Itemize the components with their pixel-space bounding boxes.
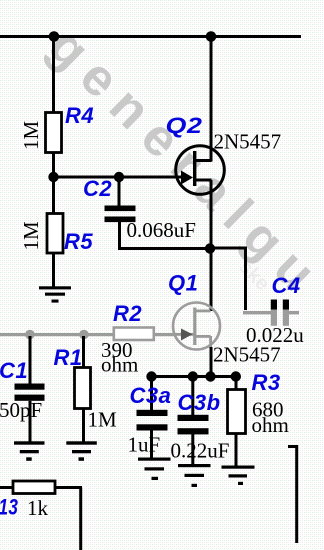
wire C2 bottom down [118,222,121,250]
wire branch to C4 [210,247,247,311]
node R3 tap [231,371,241,381]
node C3a tap [146,371,156,381]
wire top rail to R4 [52,37,55,112]
watermark generalgu diagonal [37,17,324,311]
watermark knockout ske [234,256,273,295]
label R13 partial [0,496,18,521]
svg-text:1uF: 1uF [128,433,161,457]
label C2 value [127,218,196,242]
svg-text:R4: R4 [65,103,94,128]
svg-text:ohm: ohm [252,413,289,437]
ground under R3 [222,466,255,486]
node Q2 source / C2 / C4 junction [205,243,215,253]
wire R5 to ground [52,253,55,287]
wire C3a to ground [150,430,153,458]
svg-text:C3b: C3b [178,390,221,415]
wire C1 to ground [29,401,32,443]
svg-text:R2: R2 [113,301,142,326]
svg-text:2N5457: 2N5457 [213,343,281,367]
label R13 value 1k [27,496,49,520]
node top-left junction [49,31,60,42]
svg-text:Q1: Q1 [168,271,198,296]
wire Q1 source down [210,347,213,378]
label C4 [272,273,301,298]
wire output stub [288,445,298,448]
wire source row [149,375,238,378]
capacitor C1 [15,384,45,401]
wire C2 bottom to Q1 drain node [118,247,211,250]
node gray C1 tap [25,330,35,340]
node R4/R5/C2 junction [48,172,58,182]
wire gray input to R2 [0,333,114,336]
label R4 [65,103,94,128]
resistor R2 gray [114,328,154,341]
svg-text:1k: 1k [27,496,49,520]
wire R1 stem [82,336,85,367]
label R5 value 1M [19,221,43,251]
wire Q2 source down [210,180,213,250]
svg-text:R5: R5 [64,229,93,254]
label R2 value 390 ohm [101,338,138,377]
ground under C1 [14,441,45,461]
label Q2 [166,114,203,138]
svg-text:1M: 1M [88,408,118,432]
label C3a value 1uF [128,433,161,457]
capacitor C4 gray leads [243,311,299,314]
label R5 [64,229,93,254]
resistor R13 1k [13,481,55,494]
node top-right junction [206,31,217,42]
svg-text:1M: 1M [19,221,43,251]
svg-text:Q2: Q2 [166,114,203,138]
transistor Q2 2N5457 [176,146,225,195]
capacitor C4 plates [271,300,289,326]
wire node to C2/gate [54,176,121,179]
wire C3b stem [191,377,194,415]
wire R3 stem [235,377,238,390]
label R2 [113,301,142,326]
wire Q2 source to Q1 drain [210,248,213,311]
wire R4 to node [52,153,55,214]
resistor R3 [228,390,246,434]
transistor Q1 2N5457 gray [173,303,220,350]
resistor R5 [47,214,63,254]
label C1 value 50pF [0,398,42,422]
capacitor C2 [105,206,136,223]
ground under C3a [138,458,171,481]
svg-text:C4: C4 [272,273,301,298]
svg-text:C2: C2 [83,176,112,201]
capacitor C3b [178,415,209,435]
node C3b tap [188,371,198,381]
wire gate lead Q2 [119,176,182,179]
wire top rail [0,35,301,38]
ground under R5 [39,286,71,302]
node Q1 source tap [205,371,215,381]
svg-text:0.068uF: 0.068uF [127,218,196,242]
svg-text:R3: R3 [252,370,281,395]
svg-text:2N5457: 2N5457 [214,130,282,154]
label R4 value 1M [19,121,43,151]
label R3 value 680 ohm [252,398,289,438]
wire Q2 drain up [210,37,213,162]
node C2 tap junction [114,172,124,182]
label Q2 part number 2N5457 [214,130,282,154]
svg-text:R1: R1 [54,345,83,370]
svg-text:13: 13 [0,496,18,521]
label Q1 part number 2N5457 [213,343,281,367]
wire C1 stem [29,336,32,384]
svg-text:C1: C1 [0,358,28,383]
wire R3 to ground [235,433,238,466]
resistor R4 [46,113,62,153]
wire R2 to Q1 gate gray [154,333,175,336]
label R3 [252,370,281,395]
label C3b value 0.22uF [171,439,230,463]
svg-text:1M: 1M [19,121,43,151]
wire C3a stem [150,377,153,410]
label C1 [0,358,28,383]
wire R1 to ground [82,409,85,443]
wire R13 left lead [0,486,12,489]
svg-text:ohm: ohm [101,353,138,377]
label R1 value 1M [88,408,118,432]
label Q1 [168,271,198,296]
label C3b [178,390,221,415]
wire output vertical [295,445,298,543]
capacitor C3a [137,410,168,431]
svg-text:50pF: 50pF [0,398,42,422]
ground under C3b [178,464,211,487]
label R1 [54,345,83,370]
svg-text:C3a: C3a [130,383,172,408]
node gray R1 tap [79,330,89,340]
label C2 [83,176,112,201]
wire C2 tap down [118,177,121,206]
wire R13 right lead and down [55,486,82,550]
resistor R1 [75,368,91,409]
ground under R1 [66,441,97,461]
label C4 value 0.022u [246,323,304,347]
label C3a [130,383,172,408]
wire C3b to ground [191,434,194,464]
svg-text:0.22uF: 0.22uF [171,439,230,463]
